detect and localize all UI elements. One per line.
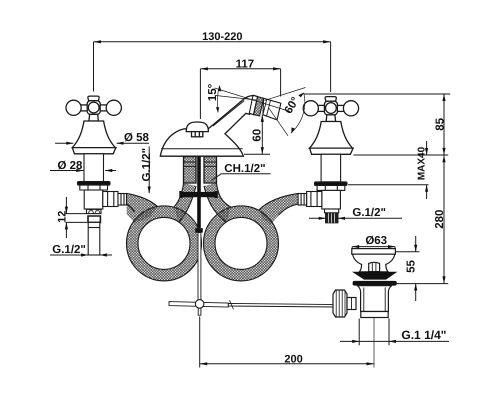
svg-text:G.1/2": G.1/2" bbox=[141, 148, 153, 182]
svg-text:117: 117 bbox=[236, 58, 255, 70]
svg-text:Ø 28: Ø 28 bbox=[58, 160, 84, 172]
svg-text:15°: 15° bbox=[207, 83, 219, 101]
svg-text:280: 280 bbox=[434, 210, 446, 229]
svg-text:85: 85 bbox=[434, 117, 446, 130]
svg-text:60: 60 bbox=[252, 129, 264, 142]
svg-text:55: 55 bbox=[405, 260, 417, 273]
svg-text:Ø 58: Ø 58 bbox=[124, 132, 150, 144]
svg-text:12: 12 bbox=[57, 211, 69, 223]
svg-text:Ø63: Ø63 bbox=[365, 235, 387, 247]
svg-text:G.1/2": G.1/2" bbox=[52, 244, 86, 256]
svg-text:MAX40: MAX40 bbox=[417, 146, 428, 180]
svg-text:CH.1/2": CH.1/2" bbox=[224, 163, 265, 175]
svg-text:130-220: 130-220 bbox=[202, 31, 242, 43]
svg-text:G.1/2": G.1/2" bbox=[352, 207, 386, 219]
svg-text:200: 200 bbox=[284, 354, 302, 366]
svg-text:G.1 1/4": G.1 1/4" bbox=[401, 328, 446, 342]
